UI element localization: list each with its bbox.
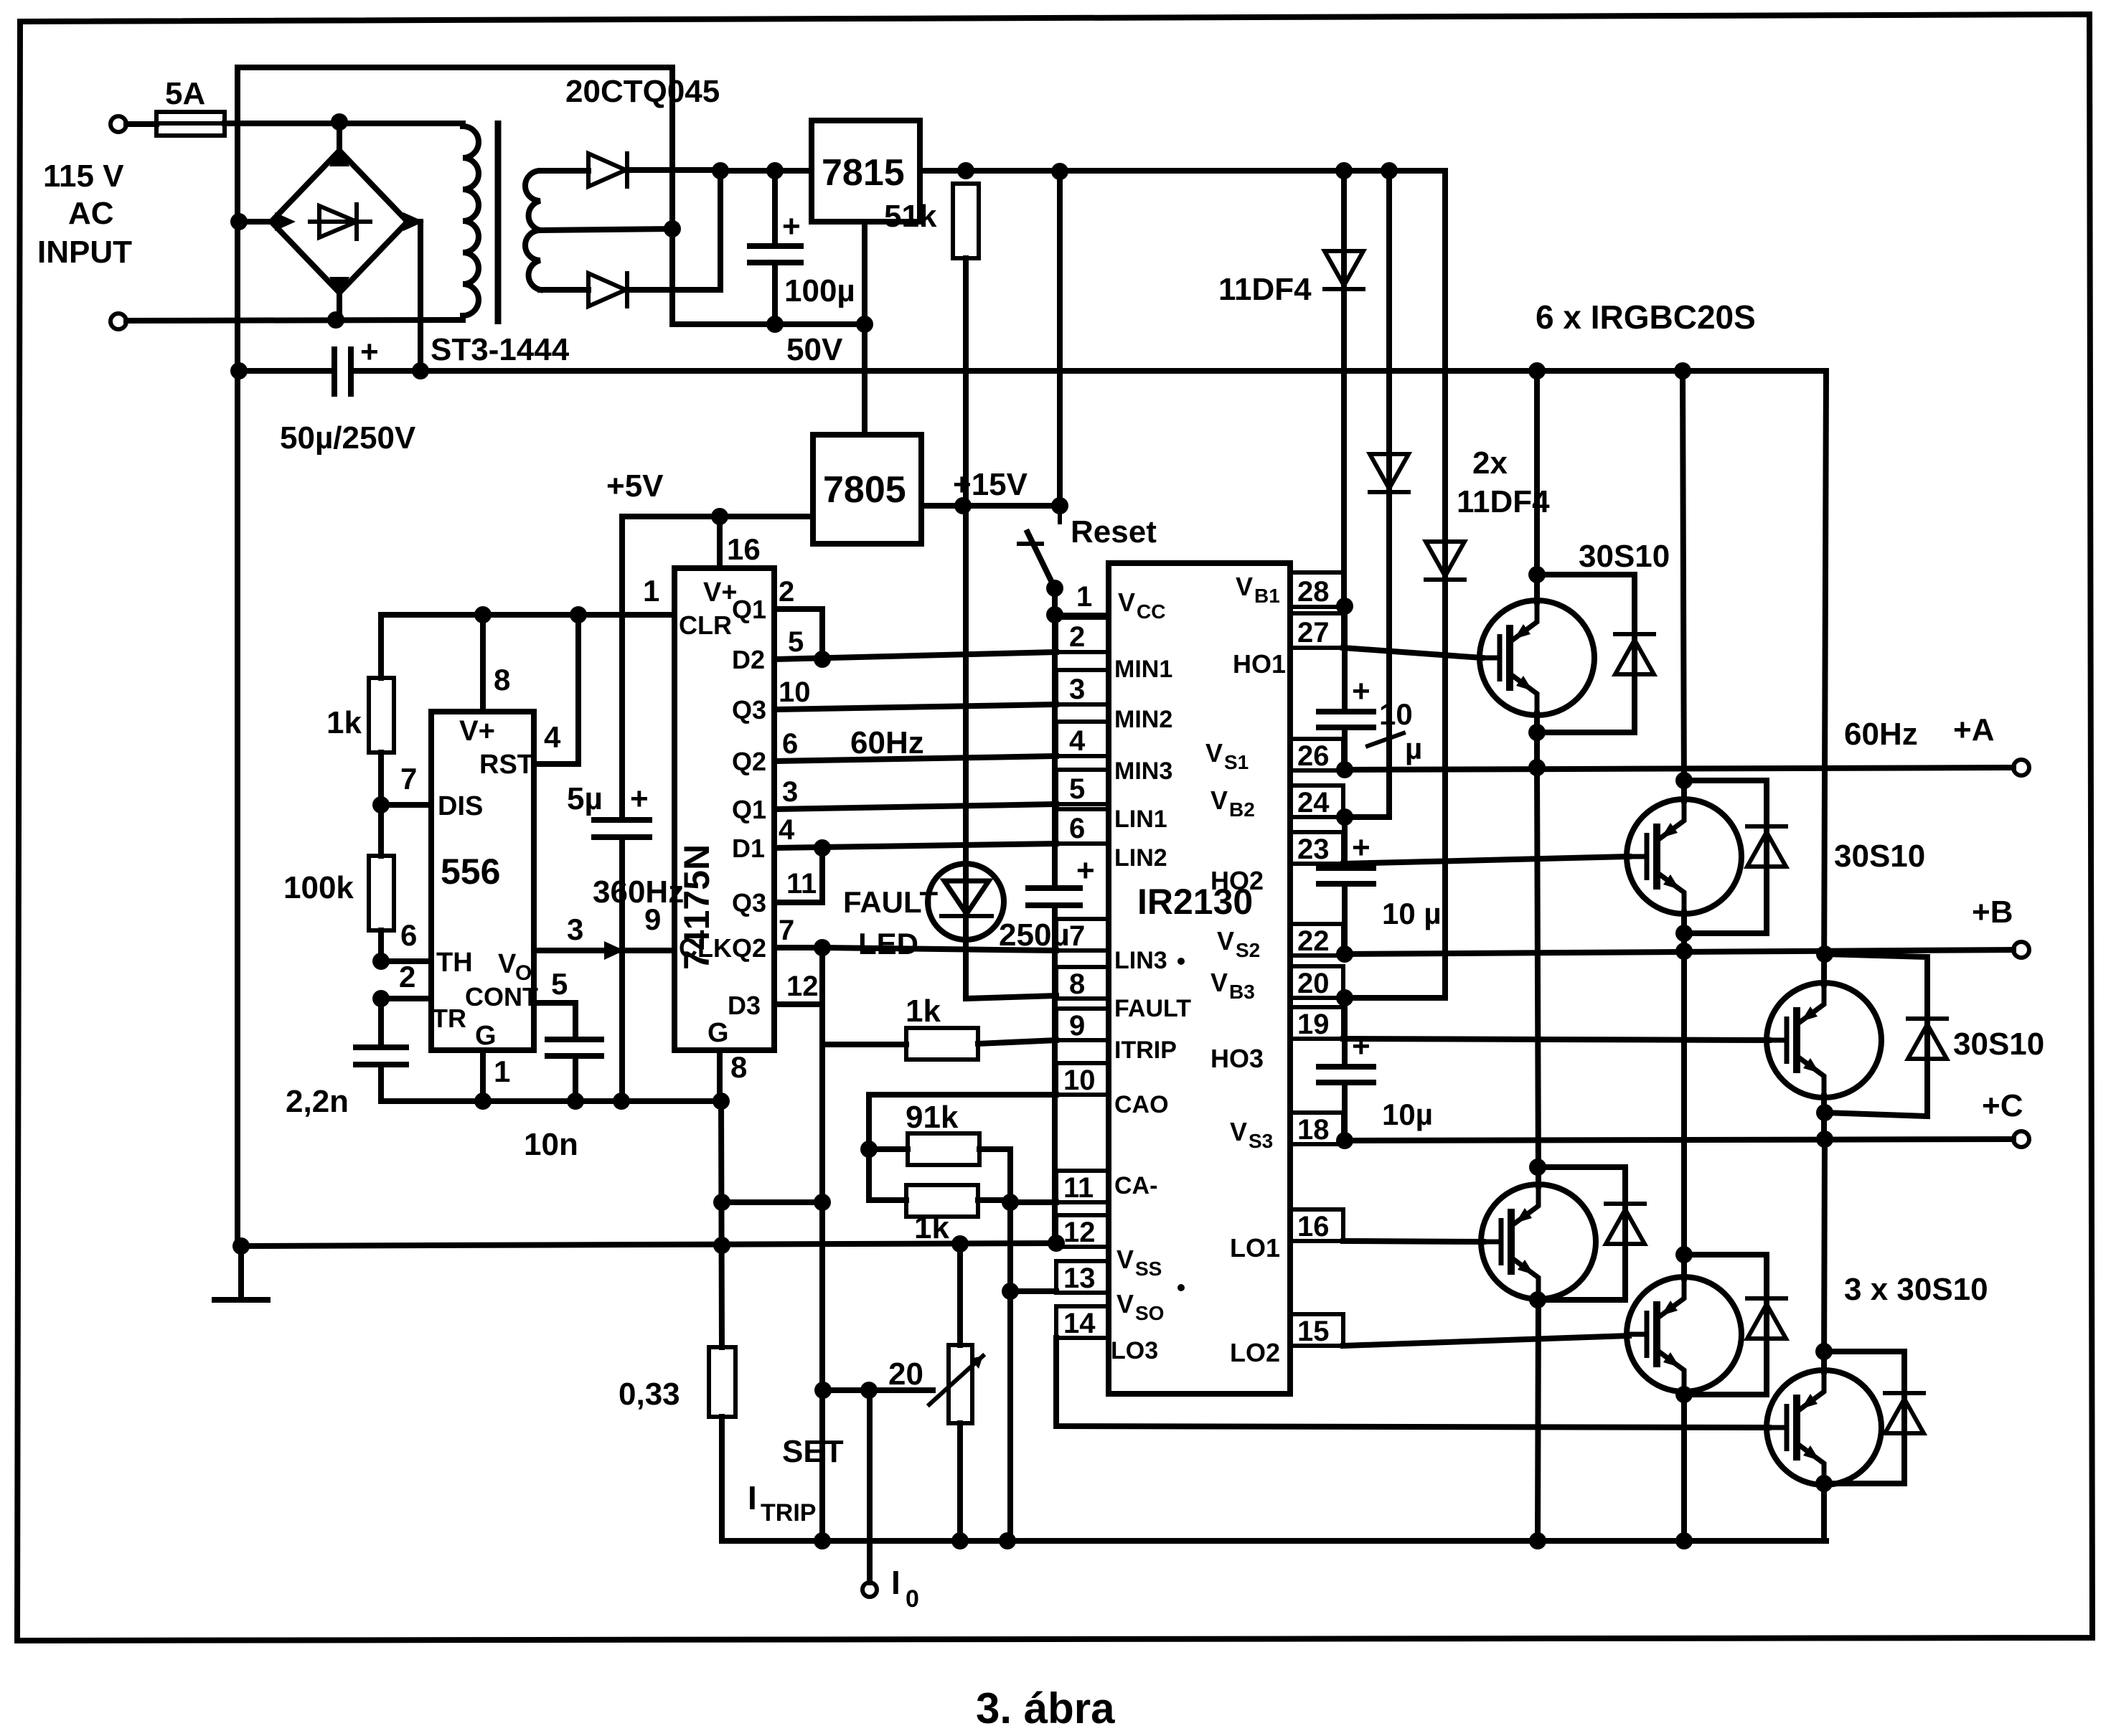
terminal AC input top — [111, 116, 126, 132]
capacitor C1 50u/250V — [239, 334, 379, 394]
svg-text:S2: S2 — [1236, 939, 1260, 961]
node — [1336, 1132, 1353, 1149]
svg-text:22: 22 — [1297, 925, 1330, 957]
node — [814, 1532, 831, 1549]
svg-text:3: 3 — [782, 776, 798, 808]
diode D9 30S10 — [1538, 1167, 1645, 1300]
node — [860, 1382, 878, 1399]
svg-text:6 x IRGBC20S: 6 x IRGBC20S — [1536, 298, 1756, 336]
wire ground loop left — [235, 67, 240, 1246]
svg-text:0,33: 0,33 — [619, 1377, 680, 1412]
svg-text:15: 15 — [1297, 1316, 1330, 1347]
wire 556 G pin1 — [480, 1050, 486, 1101]
svg-text:HO3: HO3 — [1210, 1044, 1264, 1073]
node — [713, 1237, 730, 1254]
svg-text:3: 3 — [1069, 674, 1085, 705]
svg-text:91k: 91k — [906, 1100, 959, 1135]
svg-text:Q1: Q1 — [732, 795, 766, 824]
svg-text:V: V — [1236, 572, 1253, 601]
node — [1675, 1246, 1693, 1263]
diode D11 30S10 — [1824, 1351, 1924, 1483]
svg-text:INPUT: INPUT — [37, 235, 132, 270]
svg-text:SET: SET — [782, 1434, 844, 1469]
pin 22 VS2 — [1217, 924, 1343, 961]
transformer core — [495, 121, 502, 324]
pin 14 LO3 — [1056, 1306, 1158, 1364]
svg-text:10 µ: 10 µ — [1382, 897, 1442, 930]
node — [814, 1194, 831, 1211]
svg-text:FAULT: FAULT — [843, 885, 939, 919]
node — [1675, 943, 1693, 960]
svg-text:TR: TR — [432, 1004, 466, 1033]
node — [327, 311, 344, 329]
svg-text:+B: +B — [1972, 895, 2013, 930]
svg-text:RST: RST — [479, 750, 534, 780]
wire VB2 — [1343, 814, 1389, 820]
svg-text:8: 8 — [1069, 968, 1085, 1000]
wire 556 V+ pin8 — [480, 615, 486, 712]
svg-text:LIN2: LIN2 — [1114, 844, 1167, 872]
svg-text:5: 5 — [788, 626, 804, 658]
transformer T1 ST3-1444 primary — [463, 123, 479, 319]
node — [412, 362, 429, 379]
svg-text:11DF4: 11DF4 — [1218, 272, 1312, 307]
potentiometer SET 20 — [929, 1244, 983, 1541]
wire phase C bus VS3 — [1343, 1139, 2013, 1141]
pin 28 VB1 — [1236, 572, 1343, 608]
pin 1 VCC — [1055, 581, 1165, 623]
resistor R6 1k CA- — [869, 1185, 1010, 1217]
node — [230, 213, 248, 230]
wire +15V rail — [920, 168, 1445, 174]
capacitor C5 5u — [594, 516, 649, 1101]
svg-text:LO3: LO3 — [1111, 1337, 1158, 1364]
svg-text:V+: V+ — [459, 715, 495, 747]
svg-text:2: 2 — [399, 960, 415, 994]
wire 7805 out +5V — [622, 514, 813, 519]
svg-text:+5V: +5V — [606, 468, 664, 504]
svg-text:16: 16 — [1297, 1211, 1330, 1242]
svg-text:360Hz: 360Hz — [593, 874, 684, 910]
svg-text:Q3: Q3 — [732, 695, 766, 725]
node — [1051, 497, 1068, 514]
svg-text:13: 13 — [1063, 1263, 1096, 1294]
svg-text:556: 556 — [441, 852, 500, 892]
capacitor C2 100u 50V — [750, 171, 801, 324]
svg-text:Q2: Q2 — [732, 933, 766, 963]
svg-text:30S10: 30S10 — [1953, 1027, 2044, 1062]
wire pin16 — [717, 516, 723, 568]
wire HO2 gate — [1343, 857, 1629, 864]
svg-text:LIN1: LIN1 — [1114, 806, 1167, 833]
pin 11 CA- — [1056, 1171, 1157, 1204]
node — [1002, 1283, 1019, 1300]
ground symbol — [215, 1246, 268, 1300]
node — [1336, 989, 1353, 1006]
node DIS — [372, 796, 390, 813]
svg-text:0: 0 — [906, 1585, 919, 1613]
node — [1051, 163, 1068, 180]
wire LO2 gate — [1343, 1336, 1629, 1346]
svg-text:SO: SO — [1135, 1302, 1164, 1324]
svg-text:CC: CC — [1137, 600, 1165, 623]
svg-text:16: 16 — [727, 532, 761, 566]
svg-text:V: V — [1118, 588, 1135, 617]
wire shunt top link — [722, 1199, 822, 1205]
diode D5 11DF4 — [1343, 171, 1464, 998]
svg-text:2x: 2x — [1472, 445, 1508, 481]
svg-text:TRIP: TRIP — [761, 1499, 816, 1527]
pin 12 VSS — [1056, 1215, 1162, 1280]
svg-text:60Hz: 60Hz — [1844, 717, 1918, 752]
svg-text:DIS: DIS — [438, 791, 483, 821]
pin 20 VB3 — [1210, 966, 1343, 1003]
node — [1529, 1159, 1546, 1176]
node — [711, 508, 728, 525]
svg-text:G: G — [475, 1021, 497, 1051]
wire G rail down — [721, 1101, 722, 1347]
resistor R5 91k — [869, 1133, 1010, 1541]
svg-text:10µ: 10µ — [1382, 1098, 1433, 1131]
svg-text:30S10: 30S10 — [1834, 839, 1925, 874]
svg-text:CONT: CONT — [465, 982, 538, 1011]
svg-text:5: 5 — [1069, 773, 1085, 805]
pin 24 VB2 — [1210, 786, 1343, 821]
svg-text:B2: B2 — [1229, 798, 1255, 821]
svg-text:+: + — [1076, 853, 1095, 888]
svg-text:1k: 1k — [906, 994, 941, 1029]
svg-text:2: 2 — [1069, 621, 1085, 653]
node — [1002, 1194, 1019, 1211]
svg-text:7815: 7815 — [822, 152, 905, 194]
node — [1675, 925, 1693, 942]
svg-text:14: 14 — [1063, 1308, 1096, 1339]
svg-text:B1: B1 — [1254, 585, 1280, 607]
wire — [225, 121, 463, 126]
pin Q2 to MIN3 — [732, 725, 1056, 776]
pin 2 MIN1 — [1056, 618, 1172, 683]
capacitor C8 10u — [1319, 817, 1373, 954]
pin 10 CAO — [1056, 1063, 1169, 1118]
node — [954, 497, 972, 514]
svg-text:CAO: CAO — [1114, 1091, 1169, 1118]
node — [1381, 162, 1398, 179]
svg-text:115 V: 115 V — [43, 159, 124, 194]
pin 19 HO3 — [1210, 1007, 1343, 1073]
wire VSO to bottom — [1010, 1288, 1056, 1294]
pin Q2b to LIN3 — [732, 915, 1056, 963]
svg-text:50V: 50V — [786, 332, 843, 367]
wire 7805 in — [921, 503, 1060, 509]
arrow VO — [604, 941, 624, 960]
node — [567, 1093, 584, 1110]
wire LO1 gate — [1343, 1241, 1483, 1242]
pin 16 LO1 — [1230, 1209, 1343, 1263]
svg-text:I: I — [748, 1479, 757, 1516]
svg-text:LO1: LO1 — [1230, 1233, 1280, 1263]
transistor Q5 IRGBC20S — [1627, 951, 1741, 1541]
svg-text:50µ/250V: 50µ/250V — [280, 420, 416, 456]
svg-text:7: 7 — [779, 915, 794, 946]
wire V+ rail 556 — [381, 612, 674, 618]
node — [474, 606, 492, 623]
svg-text:100µ: 100µ — [784, 273, 855, 308]
svg-text:+: + — [1352, 830, 1370, 865]
svg-text:250µ: 250µ — [999, 917, 1070, 953]
svg-text:6: 6 — [400, 918, 417, 952]
svg-text:1: 1 — [643, 574, 659, 608]
node — [1335, 162, 1353, 179]
wire phase B bus VS2 — [1343, 950, 2013, 954]
node — [1816, 1104, 1833, 1121]
svg-text:D1: D1 — [732, 834, 765, 863]
pin 4 MIN3 — [1056, 722, 1172, 785]
wire 556 CONT pin5 — [534, 1003, 575, 1039]
node — [1336, 808, 1353, 826]
pin D2 to MIN1 — [732, 645, 1056, 674]
node — [1675, 1532, 1693, 1549]
wire VCC feed — [1052, 588, 1058, 888]
transistor Q2 IRGBC20S — [1627, 371, 1741, 954]
node — [951, 1235, 969, 1253]
resistor R3 51k — [953, 184, 979, 999]
svg-text:+: + — [630, 781, 649, 816]
svg-text:LED: LED — [858, 927, 918, 961]
svg-text:V: V — [1210, 968, 1228, 997]
svg-text:Q2: Q2 — [732, 747, 766, 776]
node — [713, 1093, 730, 1110]
svg-text:1: 1 — [494, 1055, 510, 1088]
wire LO3 route — [1056, 1338, 1769, 1428]
svg-text:100k: 100k — [283, 870, 354, 905]
terminal AC input bottom — [111, 313, 126, 329]
pin 9 ITRIP — [1056, 1009, 1177, 1064]
IC U1 556 — [431, 712, 534, 1050]
diode D7 30S10 — [1684, 780, 1786, 933]
svg-text:7: 7 — [1069, 920, 1085, 952]
svg-text:AC: AC — [68, 196, 114, 231]
pin 7 LIN3 — [1056, 919, 1185, 974]
pin Q1 loop to D2 — [732, 576, 822, 659]
svg-text:FAULT: FAULT — [1114, 995, 1191, 1022]
diode D1 20CTQ045 top — [588, 154, 720, 187]
svg-text:TH: TH — [436, 948, 473, 978]
svg-text:V: V — [498, 949, 517, 979]
node — [766, 162, 784, 179]
svg-text:11: 11 — [786, 868, 817, 900]
transformer secondary — [525, 171, 540, 290]
regulator U3 7805 — [813, 435, 921, 544]
svg-text:I: I — [891, 1564, 901, 1601]
svg-text:V: V — [1230, 1117, 1247, 1146]
svg-text:1k: 1k — [914, 1210, 949, 1245]
node — [230, 362, 248, 379]
node TH — [372, 953, 390, 970]
node — [1048, 1235, 1065, 1252]
wire regulator gnd — [862, 222, 868, 435]
svg-text:MIN1: MIN1 — [1114, 656, 1172, 683]
terminal +B — [2013, 942, 2029, 958]
svg-text:1k: 1k — [326, 705, 362, 740]
pin 27 HO1 — [1233, 613, 1343, 679]
svg-text:V: V — [1116, 1245, 1134, 1274]
fuse F1 5A — [156, 112, 225, 136]
svg-text:30S10: 30S10 — [1579, 539, 1670, 574]
svg-text:10: 10 — [1379, 697, 1413, 731]
svg-text:7805: 7805 — [823, 469, 906, 511]
pin 8 FAULT — [1056, 967, 1191, 1022]
wire 7815 in — [720, 168, 812, 174]
pin 5 LIN1 — [1056, 770, 1167, 833]
node — [1529, 1291, 1546, 1308]
pin Q1b to LIN1 — [732, 776, 1056, 824]
svg-text:28: 28 — [1297, 576, 1330, 608]
svg-text:V: V — [1210, 786, 1228, 815]
wire pin8 G — [717, 1050, 723, 1101]
svg-text:24: 24 — [1297, 787, 1330, 819]
node TR — [372, 990, 390, 1007]
capacitor C9 10u — [1319, 998, 1373, 1141]
diode D8 30S10 — [1825, 954, 1947, 1116]
node — [1816, 1131, 1833, 1148]
svg-text:27: 27 — [1297, 617, 1330, 648]
IC U5 IR2130 — [1109, 563, 1290, 1394]
svg-text:6: 6 — [1069, 813, 1085, 844]
svg-text:V: V — [1205, 738, 1223, 768]
svg-text:5: 5 — [551, 967, 568, 1001]
diode D6 30S10 — [1537, 575, 1654, 732]
wire — [126, 121, 156, 127]
svg-text:+C: +C — [1982, 1088, 2023, 1123]
IC U4 74175N — [674, 568, 774, 1050]
svg-text:12: 12 — [1063, 1217, 1096, 1248]
svg-text:3: 3 — [567, 912, 583, 946]
svg-text:G: G — [707, 1018, 729, 1048]
node — [613, 1093, 630, 1110]
wire bridge + to bus — [418, 222, 423, 371]
node — [766, 316, 784, 333]
wire DC+ bus — [351, 368, 1826, 374]
node — [331, 113, 348, 131]
wire diode join riser — [718, 171, 723, 290]
svg-text:+: + — [782, 209, 801, 244]
svg-text:26: 26 — [1297, 740, 1330, 772]
node center tap — [664, 220, 681, 237]
node — [1529, 1532, 1546, 1549]
node — [1336, 598, 1353, 615]
transistor Q4 IRGBC20S — [1481, 768, 1596, 1541]
node — [1815, 1343, 1833, 1360]
capacitor C7 10u — [1319, 606, 1373, 770]
svg-text:LO2: LO2 — [1230, 1338, 1280, 1367]
wire secondary center tap — [540, 229, 672, 230]
svg-text:MIN3: MIN3 — [1114, 758, 1172, 785]
svg-text:8: 8 — [730, 1050, 747, 1084]
wire Io drop — [867, 1390, 873, 1582]
svg-text:18: 18 — [1297, 1114, 1330, 1146]
transistor Q1 IRGBC20S — [1480, 371, 1594, 770]
wire — [126, 320, 463, 321]
svg-text:4: 4 — [779, 814, 795, 846]
svg-text:10n: 10n — [524, 1127, 578, 1162]
node — [1815, 1475, 1833, 1492]
node — [1528, 566, 1546, 583]
node — [1046, 606, 1063, 623]
svg-text:9: 9 — [644, 902, 661, 936]
pin D1 to LIN2 — [732, 814, 1056, 863]
transistor Q3 IRGBC20S — [1767, 371, 1881, 1139]
pin Q3 to MIN2 — [732, 676, 1056, 725]
node — [1675, 1386, 1693, 1403]
pin 18 VS3 — [1230, 1113, 1343, 1152]
wire 556 RST pin4 — [534, 615, 578, 764]
node — [957, 162, 974, 179]
svg-text:µ: µ — [1405, 732, 1422, 765]
svg-text:CA-: CA- — [1114, 1172, 1157, 1199]
svg-text:CLR: CLR — [679, 610, 732, 640]
wire HO3 gate — [1343, 1039, 1769, 1040]
svg-text:Q3: Q3 — [732, 888, 766, 917]
svg-text:6: 6 — [782, 728, 798, 760]
svg-text:HO1: HO1 — [1233, 649, 1286, 679]
node — [1528, 724, 1546, 741]
svg-text:10: 10 — [779, 676, 811, 708]
node DC bus taps — [1528, 362, 1546, 379]
diode D10 30S10 — [1684, 1255, 1786, 1395]
svg-text:Q1: Q1 — [732, 595, 766, 624]
svg-text:V: V — [1217, 926, 1234, 956]
wire — [672, 67, 865, 324]
svg-text:20CTQ045: 20CTQ045 — [565, 74, 720, 109]
svg-text:+: + — [360, 334, 379, 369]
svg-text:23: 23 — [1297, 834, 1330, 865]
svg-text:12: 12 — [786, 971, 819, 1002]
svg-text:1: 1 — [1076, 581, 1092, 613]
wire D3 node down — [819, 948, 825, 1541]
svg-text:3. ábra: 3. ábra — [976, 1684, 1115, 1732]
wire ground bus VSS — [238, 1243, 1056, 1246]
svg-text:Reset: Reset — [1071, 514, 1157, 549]
terminal +A — [2013, 760, 2029, 775]
node — [570, 606, 587, 623]
svg-text:ST3-1444: ST3-1444 — [431, 332, 570, 367]
wire pin6 — [381, 958, 431, 964]
node — [860, 1141, 878, 1158]
pin 23 HO2 — [1210, 832, 1343, 895]
resistor R4 1k ITRIP — [822, 1028, 1056, 1060]
node — [474, 1093, 492, 1110]
pin 15 LO2 — [1230, 1314, 1343, 1367]
pin D3 loop to Q2b — [728, 948, 822, 1020]
wire pin7 — [381, 802, 431, 808]
pin 13 VSO — [1056, 1261, 1164, 1324]
diode D2 20CTQ045 bottom — [588, 273, 720, 306]
svg-text:+: + — [1352, 674, 1370, 709]
diode D4 11DF4 — [1370, 171, 1409, 817]
svg-text:S1: S1 — [1224, 751, 1249, 773]
pin Q3b loop to D1 — [732, 848, 822, 917]
wire HO1 gate — [1343, 648, 1482, 658]
svg-text:ITRIP: ITRIP — [1114, 1037, 1177, 1064]
capacitor C6 250u — [1028, 853, 1095, 1243]
svg-text:+: + — [1352, 1029, 1370, 1064]
svg-text:10: 10 — [1063, 1065, 1096, 1096]
capacitor C4 10n — [547, 1039, 601, 1101]
svg-text:60Hz: 60Hz — [850, 725, 924, 760]
terminal Io — [862, 1582, 877, 1597]
svg-text:MIN2: MIN2 — [1114, 706, 1172, 733]
wire ground loop top — [238, 65, 672, 70]
